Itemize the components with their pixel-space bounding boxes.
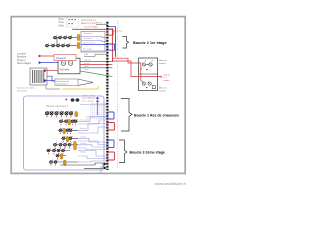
blue drop wire [97,103,99,115]
lavender cross wires [80,105,107,117]
node blue panel [43,79,46,82]
wire blue list [81,44,107,46]
lamp R71 [50,160,53,166]
svg-text:liste détail: liste détail [17,89,27,92]
svg-text:1,5 mm² 500V: 1,5 mm² 500V [84,25,98,28]
breaker D14 [60,111,64,117]
svg-text:Boucle 1 Rez de chaussée: Boucle 1 Rez de chaussée [134,113,179,117]
switch orange 61.5,156.4 [60,154,63,159]
brace boucle 2 [123,37,129,49]
lamp R13 [71,119,74,125]
label box disjoncteur [55,79,78,85]
arrow converge [78,79,93,85]
svg-text:Mise en: Mise en [159,60,167,62]
svg-text:Salle de bain: Salle de bain [83,42,96,44]
svg-text:www.archifacile.fr: www.archifacile.fr [155,181,187,186]
svg-text:points: points [164,79,171,82]
lavender drop dashes [91,103,105,119]
junction box J1 [71,98,80,102]
lamp R44 [68,142,71,148]
cable loop blue A [108,44,115,50]
lamp row 2 wire [45,45,77,47]
svg-text:Raccordement: Raccordement [81,19,96,22]
node red supply [38,55,40,57]
left plan title text [17,52,32,65]
meter box U1 [58,58,80,74]
brace boucle 3 [119,140,127,163]
lamp R43 [64,142,67,148]
switch orange 76.2,114.2 [75,112,78,117]
wire pink stub [112,30,122,32]
svg-text:Cuisine: Cuisine [80,143,88,145]
svg-text:Schema de câbles: Schema de câbles [17,88,36,90]
lamp L25 [67,43,70,47]
tableau box [24,96,105,170]
svg-text:SdB: SdB [84,54,89,56]
wire purple list 2 [81,41,107,42]
svg-text:Boucle 3 2ème étage: Boucle 3 2ème étage [130,151,166,155]
meter M1 [140,60,152,70]
wall light S1 orange [77,34,80,40]
wire blue top [107,27,115,33]
wire dark stub row3 [84,54,107,57]
breaker D15 [65,111,69,117]
svg-text:450 kWh: 450 kWh [60,70,70,72]
wire fan dark [80,60,112,62]
cable loop red B [108,123,115,131]
cable loop blue B [108,112,114,119]
svg-text:Disjoncteur de: Disjoncteur de [56,80,70,83]
tiny label row mixed [82,94,97,102]
lamp R41 [54,142,57,148]
service box [139,58,158,91]
lamp L24 [62,43,65,47]
svg-text:Séjour: Séjour [80,151,86,153]
wire fan red [80,62,112,65]
breaker D13 [55,111,59,117]
wire row 3 [61,137,78,139]
svg-text:Câble: Câble [58,24,65,27]
border frame [11,17,185,174]
lavender wires lower [78,117,107,163]
svg-text:à 2: à 2 [164,77,168,79]
svg-text:liaison 1,5 mm²: liaison 1,5 mm² [81,22,97,25]
node red dot right [96,100,98,102]
wire red feeder top [72,25,112,29]
wire red supply [41,55,55,57]
wire blue supply [41,62,59,64]
svg-text:arrivée: arrivée [96,22,103,24]
tiny row labels [80,119,90,154]
svg-text:9: 9 [117,167,118,169]
node bottom junction [104,163,106,169]
wire row 1 [59,120,78,122]
cable loop red C [108,152,115,160]
svg-text:Terre: Terre [84,68,90,71]
cable loop red A [108,29,113,35]
main bus terminal strip [106,22,108,170]
legend box [67,17,79,27]
breaker D12 [50,111,54,117]
lamp row 1 wire [53,37,77,39]
brace boucle 1 [121,99,132,132]
lamp R22 [66,128,69,134]
svg-text:branchement: branchement [56,82,68,85]
service box caption top [159,60,167,65]
wire row 7 [49,161,78,163]
svg-text:Couloir: Couloir [80,136,87,138]
svg-text:Bureau: Bureau [80,128,86,130]
lamp R51 [47,148,50,154]
lamp R42 [59,142,62,148]
wire red panel [46,70,58,72]
lamp L14 [69,35,72,39]
left caption text [17,88,36,93]
wire blue panel [46,80,55,82]
wire row 5 [46,150,70,152]
node blue supply [38,62,40,64]
switch orange 64.2,131.10000000000002 [63,128,66,133]
lamp R12 [65,119,68,125]
wire fan blue [80,66,112,68]
panel box left [30,68,47,85]
lamp R31 [62,136,65,142]
riser blue [114,27,116,57]
legend note text [81,19,97,25]
wire dark bottom 2 [84,163,103,168]
svg-text:Mise en: Mise en [159,88,167,90]
svg-text:Boucle 2 1er étage: Boucle 2 1er étage [133,41,167,45]
svg-text:compteur: compteur [56,57,66,60]
svg-text:Chambre 1: Chambre 1 [83,37,94,40]
lamp R72 [54,160,57,166]
lamp R52 [53,148,56,154]
lamp R61 [56,153,59,159]
wire red link 1 [112,58,141,63]
svg-text:service: service [159,89,167,92]
svg-text:WC étage: WC étage [83,48,93,51]
svg-text:Chambre 2: Chambre 2 [83,32,94,35]
wire row 2 [58,129,78,131]
switch orange 67.5,139.10000000000002 [66,136,69,141]
legend labels [58,18,65,27]
node red plus [65,98,67,100]
red plus right [160,76,162,78]
wire row 4 [53,144,78,146]
wire lavender below [81,50,107,52]
svg-text:Ch. parents: Ch. parents [80,119,90,122]
node blue dot [96,97,98,99]
lamp R53 [57,148,60,154]
switch orange 75.0,145.60000000000002 [74,141,77,150]
wire purple bottom [100,166,102,173]
switch orange 64.8,162.8 [64,160,67,165]
lamp R21 [59,128,62,134]
service box caption bottom [159,88,167,93]
lamp L11 [54,35,57,39]
svg-text:Circuit: Circuit [164,73,171,76]
lamp R32 [69,136,72,142]
lamp R14 [74,119,77,125]
svg-text:Tableau électrique 1: Tableau électrique 1 [46,105,69,108]
wire red link vertical [141,63,143,82]
lamp R54 [62,148,65,154]
wire dark bottom-left [46,86,60,89]
node red panel [43,69,46,72]
riser red [111,28,113,62]
wall light S2 orange [77,42,80,48]
lamp L22 [52,43,55,47]
wire fan green [80,68,112,76]
circuit list box [81,32,105,53]
cable loop blue C [108,140,114,148]
wire yellow [62,86,98,89]
svg-text:Deux étages: Deux étages [17,62,32,65]
lamp L23 [57,43,60,47]
wire blue left [38,76,55,81]
breaker D11 [45,111,49,117]
label box red [54,55,76,61]
svg-text:service: service [159,62,167,65]
lamp L13 [64,35,67,39]
terminal id labels [117,21,118,169]
wire row 6 [56,155,67,157]
wire purple list 1 [81,37,107,38]
lamp L21 [46,43,49,47]
lamp R23 [69,128,72,134]
lamp L12 [59,35,62,39]
wire dark top stub [96,22,107,24]
meter M2 [142,82,155,89]
switch orange 69.2,122.1 [68,119,71,124]
svg-text:four + plaque: four + plaque [82,100,95,103]
lamp R11 [60,119,63,125]
breaker D16 [69,111,73,117]
red caption [164,73,171,82]
wire row connector vertical [56,38,58,46]
wire red link 2 [112,61,160,77]
wire dark bottom 1 [60,163,103,165]
